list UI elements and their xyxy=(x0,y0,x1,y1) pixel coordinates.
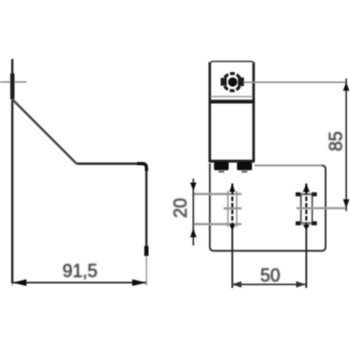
svg-text:20: 20 xyxy=(171,198,191,218)
svg-text:50: 50 xyxy=(260,265,280,285)
svg-text:91,5: 91,5 xyxy=(62,261,97,281)
svg-text:85: 85 xyxy=(326,131,346,151)
